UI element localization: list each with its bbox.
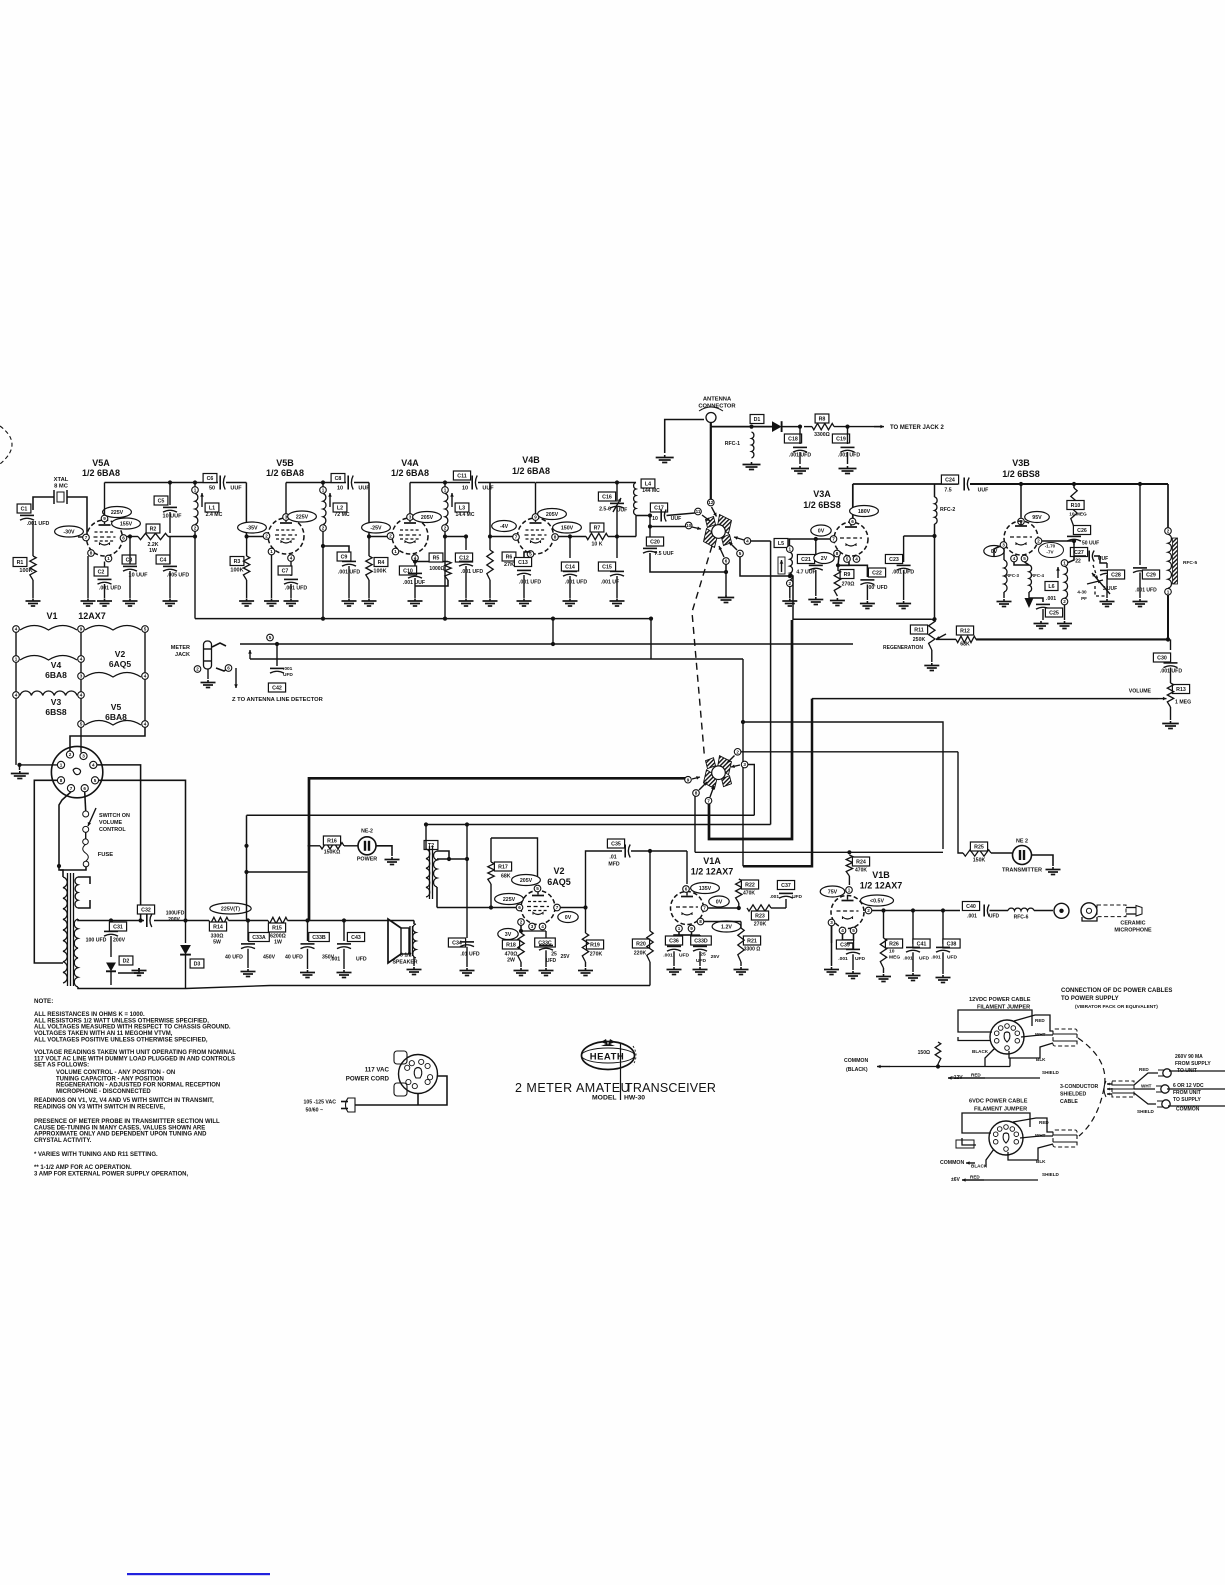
svg-text:RFC-3: RFC-3	[1006, 573, 1019, 578]
wire bus2 drop x651	[650, 619, 652, 659]
svg-text:V3B: V3B	[1012, 458, 1030, 468]
svg-text:100K: 100K	[19, 568, 32, 574]
ground R11	[931, 663, 933, 665]
wire T1 left bottom	[34, 960, 63, 963]
svg-text:C33A: C33A	[252, 935, 266, 941]
pin 1 V5A	[105, 555, 112, 562]
pin 8 V5A	[88, 550, 95, 557]
svg-text:R8: R8	[819, 417, 826, 423]
svg-text:3-CONDUCTOR: 3-CONDUCTOR	[1060, 1084, 1098, 1090]
svg-text:2: 2	[1063, 599, 1066, 604]
svg-text:TUNING CAPACITOR - ANY PO: TUNING CAPACITOR - ANY POSITION	[56, 1076, 164, 1082]
svg-text:1/2 6BA8: 1/2 6BA8	[512, 466, 550, 476]
svg-text:POWER: POWER	[357, 857, 377, 863]
pin 5 fil-b	[78, 721, 85, 728]
wire L3 bottom spur	[443, 534, 447, 538]
wire x740 vertical	[742, 722, 744, 866]
node 225V V5A	[103, 507, 132, 518]
ground L5	[789, 599, 791, 601]
svg-text:100K: 100K	[373, 569, 386, 575]
svg-text:C18: C18	[788, 437, 798, 443]
svg-text:8: 8	[554, 535, 557, 540]
meter jack contact 1	[212, 643, 226, 647]
svg-text:205V: 205V	[520, 878, 533, 884]
svg-text:1: 1	[1063, 561, 1066, 566]
svg-text:1/2 6BA8: 1/2 6BA8	[82, 468, 120, 478]
svg-text:1: 1	[1167, 589, 1170, 594]
wire y813 line	[753, 813, 755, 815]
resistor R20	[649, 851, 651, 931]
node 75V	[820, 886, 845, 897]
svg-text:105 -125 VAC: 105 -125 VAC	[304, 1100, 337, 1106]
resistor R18	[502, 940, 519, 949]
wire NE2 gnd	[376, 846, 392, 856]
svg-text:<0.5V: <0.5V	[870, 899, 884, 905]
svg-text:NE-2: NE-2	[361, 829, 373, 835]
inductor RFC-5	[1167, 484, 1169, 528]
svg-text:NE 2: NE 2	[1016, 839, 1028, 845]
pin 4 V3B	[1011, 555, 1018, 562]
resistor R5	[414, 562, 416, 571]
svg-text:C28: C28	[1111, 573, 1121, 579]
variable capacitor tuning gang 1	[718, 515, 732, 534]
svg-text:117 VOLT AC LINE WITH DUMMY LO: 117 VOLT AC LINE WITH DUMMY LOAD PLUGGED…	[34, 1056, 235, 1062]
svg-text:(BLACK): (BLACK)	[846, 1067, 868, 1073]
svg-text:7: 7	[85, 535, 88, 540]
wire RFC2 down	[934, 524, 936, 619]
pin 8 tuning cap 2	[693, 790, 700, 797]
svg-text:1W: 1W	[274, 940, 282, 946]
transformer T1 fil winding	[75, 877, 78, 908]
svg-text:100 UFD: 100 UFD	[86, 938, 107, 944]
svg-text:R17: R17	[498, 865, 508, 871]
svg-text:C35: C35	[611, 842, 621, 848]
svg-text:4: 4	[855, 557, 858, 562]
wire V5B pin1 down	[271, 555, 273, 598]
svg-text:1/2 12AX7: 1/2 12AX7	[860, 881, 903, 891]
svg-text:10: 10	[462, 486, 468, 492]
svg-text:C23: C23	[889, 557, 899, 563]
svg-text:UUF: UUF	[482, 486, 494, 492]
svg-text:UFD: UFD	[696, 958, 707, 964]
svg-text:D3: D3	[194, 962, 201, 968]
pin 8 V1A	[697, 918, 704, 925]
inductor L2	[322, 483, 324, 487]
resistor R21	[740, 922, 742, 929]
svg-text:1.2V: 1.2V	[721, 925, 732, 931]
svg-text:.001: .001	[330, 957, 340, 963]
node <0.5V	[861, 895, 894, 906]
svg-text:C29: C29	[1146, 573, 1156, 579]
resistor 150ohm	[935, 1042, 941, 1064]
capacitor C6	[203, 474, 217, 483]
lamp NE-2 power	[344, 845, 358, 847]
svg-text:SET AS FOLLOWS:: SET AS FOLLOWS:	[34, 1063, 89, 1069]
wire pin6-gnd	[725, 564, 727, 572]
6vdc socket	[989, 1121, 1023, 1155]
svg-text:R21: R21	[747, 939, 757, 945]
svg-text:-35V: -35V	[246, 526, 258, 532]
svg-text:UUF: UUF	[978, 488, 989, 494]
pin 11 tuning cap 1	[695, 508, 702, 515]
resistor R12	[956, 626, 973, 635]
capacitor C33B	[307, 921, 309, 942]
svg-text:.001 UFD: .001 UFD	[565, 580, 587, 586]
svg-text:C9: C9	[341, 555, 348, 561]
svg-text:R10: R10	[1071, 503, 1081, 509]
capacitor C10	[399, 566, 416, 575]
wire 225VT stub	[246, 914, 248, 921]
svg-text:HEATH: HEATH	[590, 1052, 625, 1063]
svg-text:205V: 205V	[546, 512, 559, 518]
wire pin3 out	[748, 765, 754, 814]
svg-text:RFC-6: RFC-6	[1014, 915, 1029, 921]
capacitor C24	[941, 475, 958, 484]
svg-text:D2: D2	[123, 959, 130, 965]
pin 6 V2	[516, 904, 523, 911]
wire fil to sock pin3	[80, 727, 82, 752]
pin 4 fil-d	[13, 692, 20, 699]
ground C9	[348, 599, 350, 601]
wire y852 line	[695, 851, 943, 853]
svg-text:10 UUF: 10 UUF	[163, 514, 183, 520]
svg-text:3: 3	[531, 924, 534, 929]
svg-text:UFD: UFD	[679, 953, 690, 959]
svg-text:6: 6	[725, 559, 728, 564]
svg-text:FROM SUPPLY: FROM SUPPLY	[1175, 1061, 1211, 1067]
node 225V(T)	[210, 903, 251, 914]
microphone jack	[1034, 910, 1053, 912]
svg-text:2: 2	[789, 581, 792, 586]
ground C14	[569, 599, 571, 601]
capacitor C31	[109, 918, 113, 922]
pin 6 tuning cap 1	[723, 558, 730, 565]
pin 4 V3A	[853, 556, 860, 563]
svg-text:Z TO ANTENNA LINE DETECTO: Z TO ANTENNA LINE DETECTOR	[232, 697, 324, 703]
svg-text:R7: R7	[594, 526, 601, 532]
wire T1 fil taps	[78, 877, 90, 884]
svg-text:7.5 UUF: 7.5 UUF	[654, 551, 673, 557]
wire fil to sock pin2	[70, 727, 145, 751]
svg-text:V4A: V4A	[401, 458, 419, 468]
svg-text:V2: V2	[115, 649, 126, 659]
svg-text:V4: V4	[51, 660, 62, 670]
capacitor C4	[156, 555, 170, 564]
svg-text:R9: R9	[844, 572, 851, 578]
svg-text:9: 9	[534, 515, 537, 520]
ground C12	[465, 599, 467, 601]
svg-text:8: 8	[90, 551, 93, 556]
svg-text:C40: C40	[966, 904, 976, 910]
svg-text:C22: C22	[872, 571, 882, 577]
crystal XTAL	[53, 490, 55, 504]
svg-text:C15: C15	[602, 565, 612, 571]
wire antenna to tuning cap	[710, 427, 712, 499]
wire pin8 stub	[694, 796, 696, 852]
svg-text:7: 7	[707, 798, 710, 803]
wire rail R14-R15	[229, 920, 269, 922]
wire C5-grid	[169, 512, 171, 533]
svg-text:WHT: WHT	[1141, 1084, 1152, 1089]
wire top bus V4A segment	[410, 482, 470, 484]
svg-text:RFC-1: RFC-1	[725, 441, 740, 447]
trimmer 4-30pf	[1093, 565, 1099, 583]
svg-text:CERAMIC: CERAMIC	[1120, 921, 1145, 927]
svg-text:5: 5	[536, 886, 539, 891]
svg-text:75V: 75V	[828, 890, 838, 896]
svg-text:UUF: UUF	[230, 486, 242, 492]
svg-text:12VDC POWER CABLE: 12VDC POWER CABLE	[969, 997, 1031, 1003]
trimmer C16	[598, 492, 615, 501]
svg-text:UFD: UFD	[792, 894, 802, 900]
ground V1B pin3	[831, 967, 833, 969]
wire C35 out	[631, 850, 687, 852]
wire power cord	[355, 1076, 447, 1105]
pin 3 fil	[78, 673, 85, 680]
wire V5A plate riser	[104, 483, 106, 516]
svg-text:C41: C41	[917, 942, 927, 948]
svg-text:PRESENCE OF METER PROBE IN TRA: PRESENCE OF METER PROBE IN TRANSMITTER S…	[34, 1119, 220, 1125]
wire heavy B+ riser	[309, 778, 688, 920]
svg-text:5: 5	[1023, 556, 1026, 561]
svg-text:TO METER JACK 2: TO METER JACK 2	[890, 425, 945, 431]
wire L4-C17	[636, 515, 652, 517]
wire meterB drop	[743, 659, 943, 849]
pin 4 fil-a	[13, 626, 20, 633]
svg-text:2: 2	[194, 526, 197, 531]
svg-text:C32: C32	[141, 908, 151, 914]
svg-text:R2: R2	[150, 527, 157, 533]
svg-text:READINGS ON V3 WITH SWITCH IN: READINGS ON V3 WITH SWITCH IN RECEIVE,	[34, 1104, 165, 1110]
pin 7 V3A	[830, 536, 837, 543]
wire y824 line	[426, 824, 771, 826]
svg-text:9: 9	[687, 777, 690, 782]
svg-text:9: 9	[80, 627, 83, 632]
wire x247 vertical	[246, 815, 248, 913]
tube V1B	[831, 896, 864, 929]
svg-text:6: 6	[685, 887, 688, 892]
wire V2 pin7 out	[560, 907, 585, 909]
pin 1 V1B	[846, 887, 853, 894]
svg-text:27K: 27K	[504, 562, 514, 568]
svg-text:C8: C8	[335, 476, 342, 482]
capacitor C22	[838, 565, 867, 577]
node -25V	[362, 522, 391, 533]
wire L3 bottom to bus2	[444, 531, 446, 618]
svg-text:6BS8: 6BS8	[45, 707, 67, 717]
capacitor C38	[942, 911, 944, 945]
wire C27 to L6	[1067, 556, 1074, 563]
svg-text:C42: C42	[272, 686, 282, 692]
transformer T1 primary	[63, 877, 67, 983]
capacitor C21	[797, 555, 814, 564]
pin 9 V1A	[688, 925, 695, 932]
svg-text:4: 4	[290, 556, 293, 561]
ground R1	[32, 599, 34, 601]
svg-text:L6: L6	[1048, 584, 1054, 590]
svg-text:C16: C16	[602, 495, 612, 501]
svg-text:2: 2	[196, 667, 199, 672]
lug common	[1134, 1093, 1156, 1104]
svg-text:ALL RESISTANCES IN OHMS K =: ALL RESISTANCES IN OHMS K = 1000.	[34, 1012, 145, 1018]
svg-text:ALL VOLTAGES MEASURED WITH RES: ALL VOLTAGES MEASURED WITH RESPECT TO CH…	[34, 1025, 231, 1031]
wire L2 bottom to bus2	[322, 531, 324, 618]
node 1.2V	[712, 921, 741, 932]
pin 3 V3B	[1000, 542, 1007, 549]
svg-text:CRYSTAL ACTIVITY.: CRYSTAL ACTIVITY.	[34, 1138, 92, 1144]
svg-text:3 UUF: 3 UUF	[1103, 586, 1117, 592]
svg-text:10: 10	[686, 523, 692, 528]
svg-text:205V: 205V	[421, 515, 434, 521]
svg-text:144 MC: 144 MC	[642, 488, 660, 494]
svg-text:0V: 0V	[565, 915, 572, 921]
cable bundle	[1112, 1081, 1134, 1097]
gang dashed line	[692, 546, 712, 757]
wire C27 out	[1100, 556, 1107, 563]
svg-text:V5A: V5A	[92, 458, 110, 468]
svg-text:3: 3	[409, 515, 412, 520]
svg-text:UFD: UFD	[989, 914, 1000, 920]
svg-text:8: 8	[60, 778, 63, 783]
svg-text:C19: C19	[836, 437, 846, 443]
svg-text:UFD: UFD	[855, 956, 866, 962]
svg-text:4-30: 4-30	[1077, 590, 1087, 595]
svg-text:2.4 MC: 2.4 MC	[206, 512, 223, 518]
svg-text:(VIBRATOR PACK OR EQUIVALEN: (VIBRATOR PACK OR EQUIVALENT)	[1075, 1004, 1158, 1010]
svg-text:.001 UUF: .001 UUF	[403, 580, 425, 586]
node 180V	[850, 506, 879, 517]
pin 7 V4B	[513, 534, 520, 541]
ground C19	[847, 466, 849, 468]
node 0V V2	[558, 912, 578, 923]
svg-text:R26: R26	[889, 942, 899, 948]
svg-text:.001 UFD: .001 UFD	[285, 586, 307, 592]
svg-text:.001: .001	[838, 956, 848, 962]
lug 6or12	[1134, 1088, 1155, 1090]
cable curve	[1078, 1038, 1105, 1136]
capacitor C13	[523, 557, 525, 566]
svg-text:PF: PF	[1081, 596, 1087, 601]
tube V4B	[518, 518, 554, 554]
svg-text:10 K: 10 K	[592, 542, 603, 548]
capacitor C28	[1106, 563, 1108, 568]
wire T1 hv bottom	[78, 987, 186, 989]
ground tuning cap 1	[725, 595, 727, 597]
svg-text:R19: R19	[590, 943, 600, 949]
svg-text:180V: 180V	[858, 509, 871, 515]
svg-text:WHT: WHT	[1035, 1133, 1046, 1138]
svg-text:2.5-6: 2.5-6	[599, 507, 611, 513]
svg-text:RFC-4: RFC-4	[1031, 573, 1044, 578]
junction R24 top	[847, 850, 851, 854]
svg-text:UFD: UFD	[283, 672, 293, 678]
svg-text:C31: C31	[113, 925, 123, 931]
wire top bus V3A	[853, 483, 958, 485]
ground speaker	[413, 967, 415, 969]
pin 2 V4A	[387, 533, 394, 540]
svg-text:1: 1	[60, 763, 63, 768]
pin 1 V1A	[676, 925, 683, 932]
svg-text:225V: 225V	[111, 510, 124, 516]
svg-text:1: 1	[322, 488, 325, 493]
svg-text:UFD: UFD	[546, 958, 557, 964]
wire R7-L4col	[608, 536, 636, 538]
node 205V V2	[512, 875, 541, 886]
resistor R8	[804, 426, 812, 428]
pin 4 tuning cap 1	[744, 538, 751, 545]
wire detector row	[711, 426, 772, 428]
pin 4 fil-e	[78, 692, 85, 699]
svg-text:TO POWER SUPPLY: TO POWER SUPPLY	[1061, 996, 1119, 1002]
svg-text:0V: 0V	[818, 529, 825, 535]
junction C3 tap	[128, 534, 132, 538]
node -4V	[492, 521, 517, 532]
filament V1 left	[20, 626, 77, 631]
svg-text:VOLUME: VOLUME	[1129, 689, 1152, 695]
svg-text:4: 4	[144, 722, 147, 727]
svg-text:3: 3	[80, 674, 83, 679]
node 150V	[553, 522, 582, 533]
wire top bus C11-V4B	[478, 482, 535, 484]
svg-text:7.5: 7.5	[944, 488, 951, 494]
svg-text:R24: R24	[856, 860, 866, 866]
svg-text:RED: RED	[970, 1175, 980, 1180]
ground R6	[489, 599, 491, 601]
svg-text:.001: .001	[931, 955, 941, 961]
svg-text:READINGS ON V1, V2, V4 AND V5: READINGS ON V1, V2, V4 AND V5 WITH SWITC…	[34, 1098, 214, 1104]
svg-text:R16: R16	[327, 839, 337, 845]
svg-text:470K: 470K	[855, 868, 867, 874]
svg-text:C25: C25	[1049, 611, 1059, 617]
pin 7 tuning cap 2	[705, 797, 712, 804]
svg-text:6BA8: 6BA8	[45, 670, 67, 680]
wire meter A	[240, 643, 853, 645]
pin 4 fil-c	[142, 673, 149, 680]
inductor L6	[1065, 566, 1068, 598]
pin 5 V1B	[850, 927, 857, 934]
svg-text:TO SUPPLY: TO SUPPLY	[1173, 1097, 1201, 1103]
capacitor C33D	[674, 934, 700, 936]
capacitor C26	[1073, 527, 1075, 534]
capacitor C2	[104, 562, 106, 577]
svg-text:R6: R6	[506, 555, 513, 561]
svg-text:C6: C6	[207, 476, 214, 482]
wire bus2 drop x553	[552, 619, 554, 644]
svg-text:72 MC: 72 MC	[334, 512, 350, 518]
wire pin8 V5A down	[87, 556, 89, 598]
svg-text:METER: METER	[171, 645, 190, 651]
svg-text:25: 25	[551, 952, 557, 958]
junction C18	[798, 425, 802, 429]
svg-text:RED: RED	[971, 1073, 981, 1078]
wire T2 top	[425, 825, 427, 850]
capacitor C33C	[521, 930, 546, 932]
capacitor C41	[912, 911, 914, 945]
12vdc connector	[1053, 1029, 1077, 1046]
svg-text:8: 8	[836, 551, 839, 556]
node -30V	[55, 526, 84, 537]
svg-text:CONNECTION OF DC POWER CABLES: CONNECTION OF DC POWER CABLES	[1061, 988, 1172, 994]
svg-text:5: 5	[269, 635, 272, 640]
svg-text:R3: R3	[234, 559, 241, 565]
transformer T2	[424, 841, 438, 850]
svg-text:.001: .001	[903, 956, 913, 962]
svg-text:1/2 12AX7: 1/2 12AX7	[691, 867, 734, 877]
svg-text:4: 4	[746, 539, 749, 544]
resistor R6	[489, 537, 491, 550]
wire V1B pin2 out	[872, 910, 960, 912]
lamp NE-2 transmitter	[991, 852, 1012, 854]
